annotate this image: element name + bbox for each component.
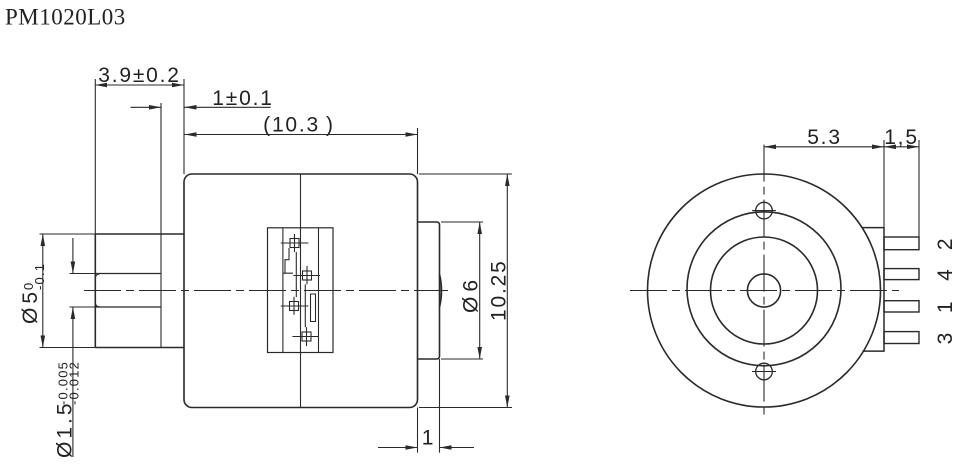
bottom screw hole tick: [752, 371, 776, 373]
shaft top edge: [95, 273, 161, 275]
hub top edge: [95, 233, 184, 235]
extension line boss bottom: [441, 358, 483, 360]
center hub circle: [747, 274, 780, 307]
shaft bottom edge: [95, 306, 161, 308]
pin label 4: [934, 267, 957, 280]
arrow Ø6 top: [477, 222, 482, 234]
svg-text:3: 3: [934, 331, 957, 344]
arrow 3.9 left: [95, 83, 107, 88]
extension line block right: [883, 140, 885, 228]
svg-text:-0.012: -0.012: [67, 361, 82, 405]
pin label 2: [934, 237, 957, 250]
pin label 3: [934, 331, 957, 344]
svg-text:1: 1: [422, 427, 435, 450]
arrow Ø1.5 top: [71, 262, 76, 274]
arrow Ø1.5 bottom: [71, 307, 76, 319]
label Ø6: [460, 275, 483, 313]
pin 3: [884, 332, 919, 344]
extension line boss right lower: [439, 359, 441, 453]
dim (10.3) line: [185, 134, 418, 136]
extension line body left: [183, 79, 185, 174]
terminal pad 4: [292, 327, 318, 346]
front view vertical centerline: [763, 145, 765, 418]
dim 3.9±0.2 line: [95, 84, 184, 86]
arrow dim1 right: [440, 445, 452, 450]
front flange edge: [160, 103, 162, 348]
label 10.25: [488, 259, 511, 321]
shaft tip corner fillets: [95, 274, 100, 307]
extension line body right top: [417, 128, 419, 174]
extension line body top right: [419, 173, 512, 175]
extension line shaft tip: [94, 79, 96, 234]
extension line hub bottom: [40, 347, 96, 349]
svg-text:10.25: 10.25: [488, 259, 511, 321]
rear boss outline: [418, 222, 440, 359]
motor body (side view): [184, 174, 418, 408]
dim Ø6 line: [479, 222, 481, 359]
arrow 5.3 left: [764, 145, 776, 150]
svg-text:PM1020L03: PM1020L03: [5, 5, 126, 30]
svg-text:3.9±0.2: 3.9±0.2: [98, 64, 181, 87]
arrow 1.5 right: [907, 145, 919, 150]
bottom screw hole: [756, 363, 773, 380]
pin 4: [884, 269, 919, 280]
extension line pin tip: [918, 140, 920, 237]
svg-text:4: 4: [934, 267, 957, 280]
arrow 10.25 top: [505, 174, 510, 186]
side view centerline: [84, 290, 448, 292]
dim 1±0.1 left tail: [131, 106, 162, 108]
arrow (10.3) right: [406, 132, 418, 137]
svg-text:5.3: 5.3: [807, 126, 842, 149]
arrow 1.5 left: [884, 145, 896, 150]
dim 10.25 line: [506, 174, 508, 408]
top screw hole: [756, 202, 773, 219]
front face circle: [687, 212, 841, 366]
terminal pad 3: [281, 297, 309, 315]
wiring vertical link: [304, 284, 306, 327]
arrow dim1 left: [406, 445, 418, 450]
arrow Ø5 bottom: [41, 336, 46, 348]
front view outer circle: [648, 174, 881, 407]
pin 1: [884, 301, 919, 312]
svg-text:Ø6: Ø6: [460, 275, 483, 313]
bearing hub front face: [94, 234, 96, 348]
extension line body right lower: [417, 408, 419, 453]
front view horizontal centerline: [630, 290, 899, 292]
extension line body bottom right: [419, 407, 512, 409]
terminal pad 1: [281, 234, 309, 252]
dim Ø1.5 lower leader: [72, 307, 74, 457]
top screw hole tick: [752, 210, 776, 212]
detail box inner wall right: [318, 228, 320, 353]
detail box inner wall left: [282, 228, 284, 353]
arrow 3.9 right: [172, 83, 184, 88]
body parting seam line: [300, 174, 302, 408]
svg-text:1,5: 1,5: [884, 126, 919, 149]
arrow 1±0.1 left: [149, 105, 161, 110]
dim Ø5 line: [42, 234, 44, 348]
svg-text:Ø1.5: Ø1.5: [54, 400, 77, 458]
rear shaft stub bump: [440, 275, 442, 308]
wiring rectangle right: [311, 294, 316, 322]
svg-text:-0.1: -0.1: [32, 263, 47, 290]
svg-text:1: 1: [934, 300, 957, 313]
arrow 5.3 right: [872, 145, 884, 150]
wiring vertical link upper: [295, 252, 297, 297]
pin label 1: [934, 300, 957, 313]
dim Ø1.5 upper tail: [72, 238, 74, 274]
arrow Ø6 bottom: [477, 347, 482, 359]
terminal pad 2: [293, 266, 320, 284]
arrow Ø5 top: [41, 234, 46, 246]
svg-text:(10.3 ): (10.3 ): [263, 114, 335, 137]
svg-text:Ø5: Ø5: [19, 288, 42, 324]
svg-text:1±0.1: 1±0.1: [212, 87, 273, 110]
label Ø5 with tolerance: [19, 263, 47, 324]
arrow 1±0.1 right: [185, 105, 197, 110]
svg-text:2: 2: [934, 237, 957, 250]
connector block: [863, 228, 885, 352]
arrow (10.3) left: [185, 132, 197, 137]
dim 5.3 and 1.5 line: [764, 146, 919, 148]
extension line shaft bottom: [70, 306, 96, 308]
extension line shaft top: [70, 273, 96, 275]
label Ø1.5 with tolerance: [54, 361, 82, 458]
dim 1±0.1 right tail: [185, 106, 271, 108]
wiring step polyline left: [283, 248, 293, 273]
dim 1 left tail: [378, 447, 418, 449]
gear train detail box: [268, 228, 334, 353]
arrow 10.25 bottom: [505, 396, 510, 408]
dim 1 right tail: [440, 447, 475, 449]
hub bottom edge: [95, 347, 184, 349]
rotor circle: [711, 237, 818, 344]
extension line boss top: [441, 221, 483, 223]
extension line hub top: [40, 233, 96, 235]
pin 2: [884, 237, 919, 250]
